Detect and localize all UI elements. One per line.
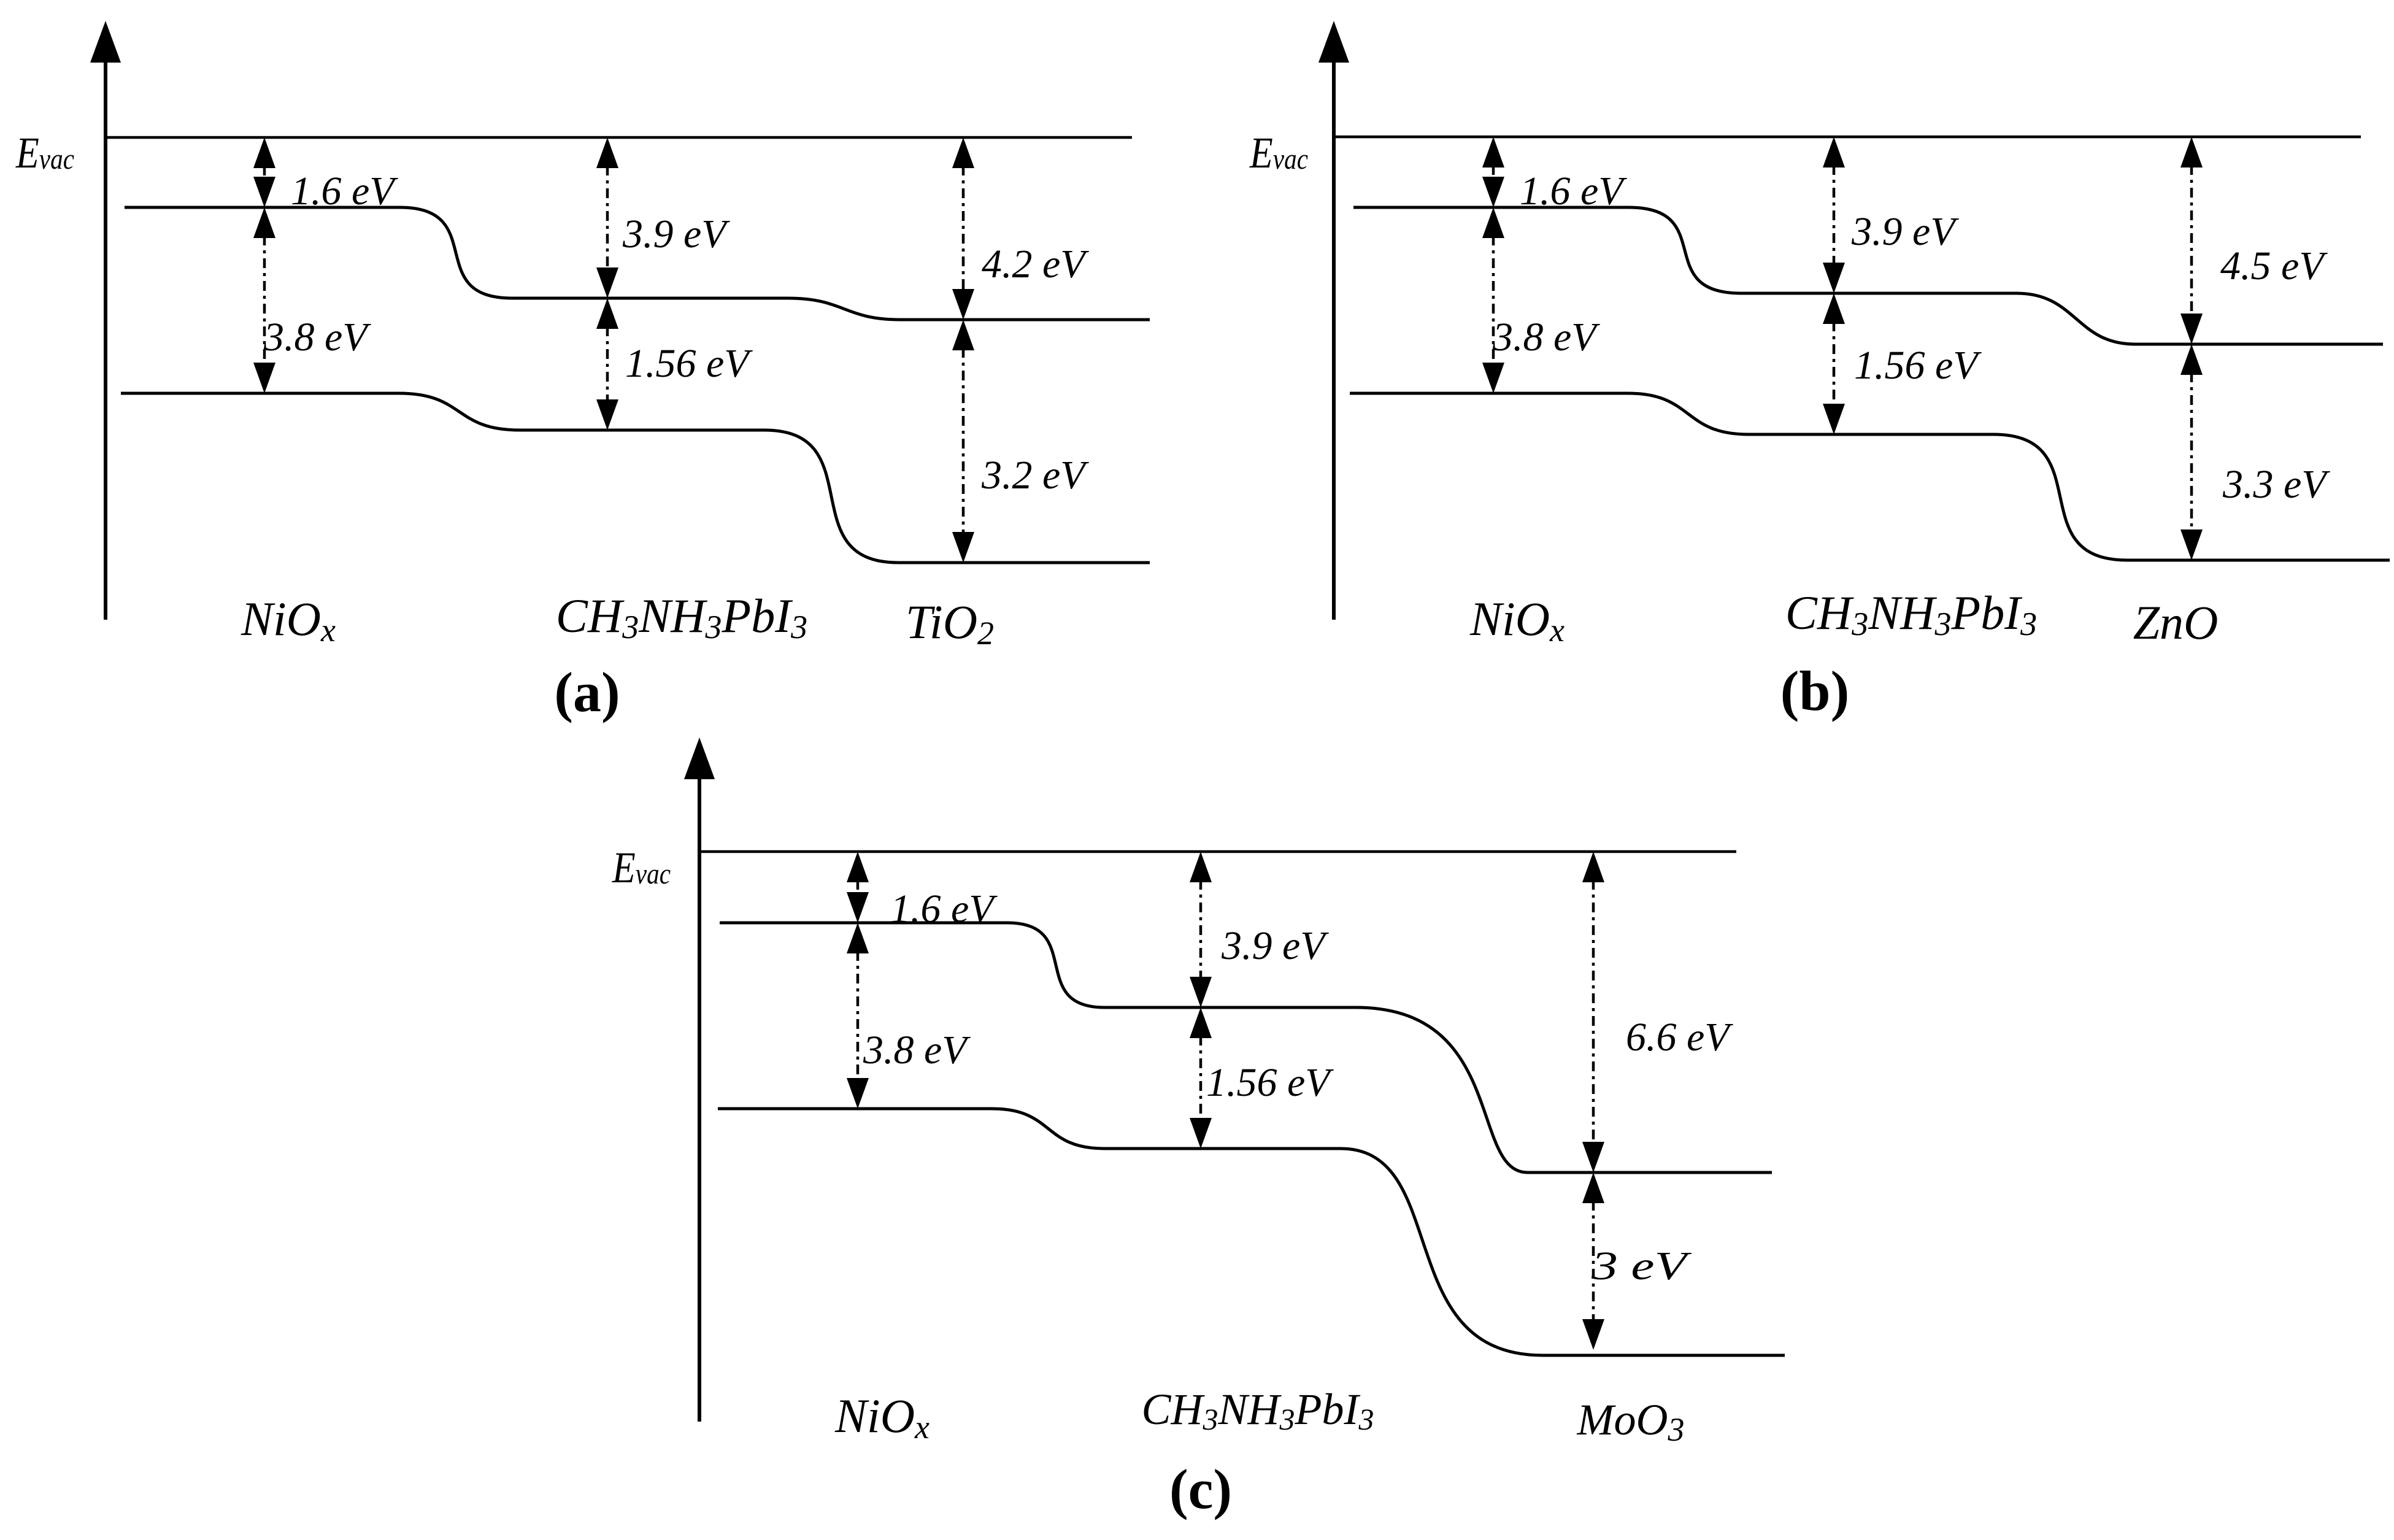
3.8 eV arrow (b) <box>1482 207 1504 393</box>
Evac vacuum level line (c) <box>699 850 1736 853</box>
svg-text:ZnO: ZnO <box>2133 596 2219 649</box>
3.2 eV arrow (a) <box>952 320 974 563</box>
1.6 eV arrow (c) <box>847 852 869 923</box>
svg-text:CH3NH3PbI3: CH3NH3PbI3 <box>556 589 807 645</box>
svg-text:3 eV: 3 eV <box>1591 1244 1692 1288</box>
upper energy band line (b): NiOx/perovskite/ZnO <box>1353 207 2383 344</box>
upper energy band line (a): NiOx/perovskite/TiO2 <box>125 207 1150 320</box>
1.6 eV arrow (b) <box>1482 137 1504 207</box>
svg-text:1.6 eV: 1.6 eV <box>890 887 998 931</box>
svg-text:3.8 eV: 3.8 eV <box>263 315 371 360</box>
svg-text:(b): (b) <box>1780 660 1849 722</box>
3.9 eV arrow (c) <box>1190 852 1212 1007</box>
3.3 eV arrow (b) <box>2180 344 2203 560</box>
energy axis (a) <box>90 21 121 620</box>
svg-text:1.56 eV: 1.56 eV <box>625 341 753 386</box>
svg-text:3.8 eV: 3.8 eV <box>863 1028 971 1072</box>
1.56 eV arrow (a) <box>596 298 618 430</box>
6.6 eV arrow (c) <box>1582 852 1604 1172</box>
svg-text:1.56 eV: 1.56 eV <box>1854 343 1982 388</box>
svg-text:CH3NH3PbI3: CH3NH3PbI3 <box>1785 586 2037 642</box>
1.56 eV arrow (c) <box>1190 1007 1212 1149</box>
energy axis (c) <box>684 737 715 1422</box>
svg-text:4.5 eV: 4.5 eV <box>2220 244 2328 288</box>
svg-text:4.2 eV: 4.2 eV <box>982 242 1089 287</box>
lower energy band line (a): NiOx/perovskite/TiO2 <box>121 393 1150 563</box>
lower energy band line (c): NiOx/perovskite/MoO3 <box>718 1109 1785 1355</box>
svg-text:1.6 eV: 1.6 eV <box>1520 169 1627 214</box>
svg-text:1.56 eV: 1.56 eV <box>1206 1060 1334 1105</box>
3.9 eV arrow (a) <box>596 137 618 298</box>
3.8 eV arrow (a) <box>253 207 275 393</box>
Evac vacuum level line (a) <box>106 136 1132 139</box>
3 eV arrow (c) <box>1582 1172 1604 1350</box>
svg-text:1.6 eV: 1.6 eV <box>291 169 398 214</box>
svg-text:(a): (a) <box>554 661 620 723</box>
svg-text:(c): (c) <box>1169 1458 1232 1520</box>
lower energy band line (b): NiOx/perovskite/ZnO <box>1350 393 2390 560</box>
svg-text:3.2 eV: 3.2 eV <box>981 453 1089 498</box>
svg-text:CH3NH3PbI3: CH3NH3PbI3 <box>1141 1385 1374 1436</box>
1.6 eV arrow (a) <box>253 137 275 207</box>
svg-text:3.9 eV: 3.9 eV <box>1851 209 1959 254</box>
1.56 eV arrow (b) <box>1823 293 1845 434</box>
svg-text:3.9 eV: 3.9 eV <box>1221 923 1329 968</box>
svg-text:3.8 eV: 3.8 eV <box>1492 315 1600 360</box>
4.5 eV arrow (b) <box>2180 137 2203 344</box>
Evac vacuum level line (b) <box>1334 136 2361 139</box>
3.9 eV arrow (b) <box>1823 137 1845 293</box>
energy axis (b) <box>1318 21 1349 620</box>
svg-text:6.6 eV: 6.6 eV <box>1626 1015 1733 1060</box>
3.8 eV arrow (c) <box>847 923 869 1109</box>
svg-text:3.9 eV: 3.9 eV <box>622 212 730 256</box>
svg-text:3.3 eV: 3.3 eV <box>2222 462 2330 507</box>
4.2 eV arrow (a) <box>952 137 974 320</box>
upper energy band line (c): NiOx/perovskite/MoO3 <box>720 923 1772 1172</box>
